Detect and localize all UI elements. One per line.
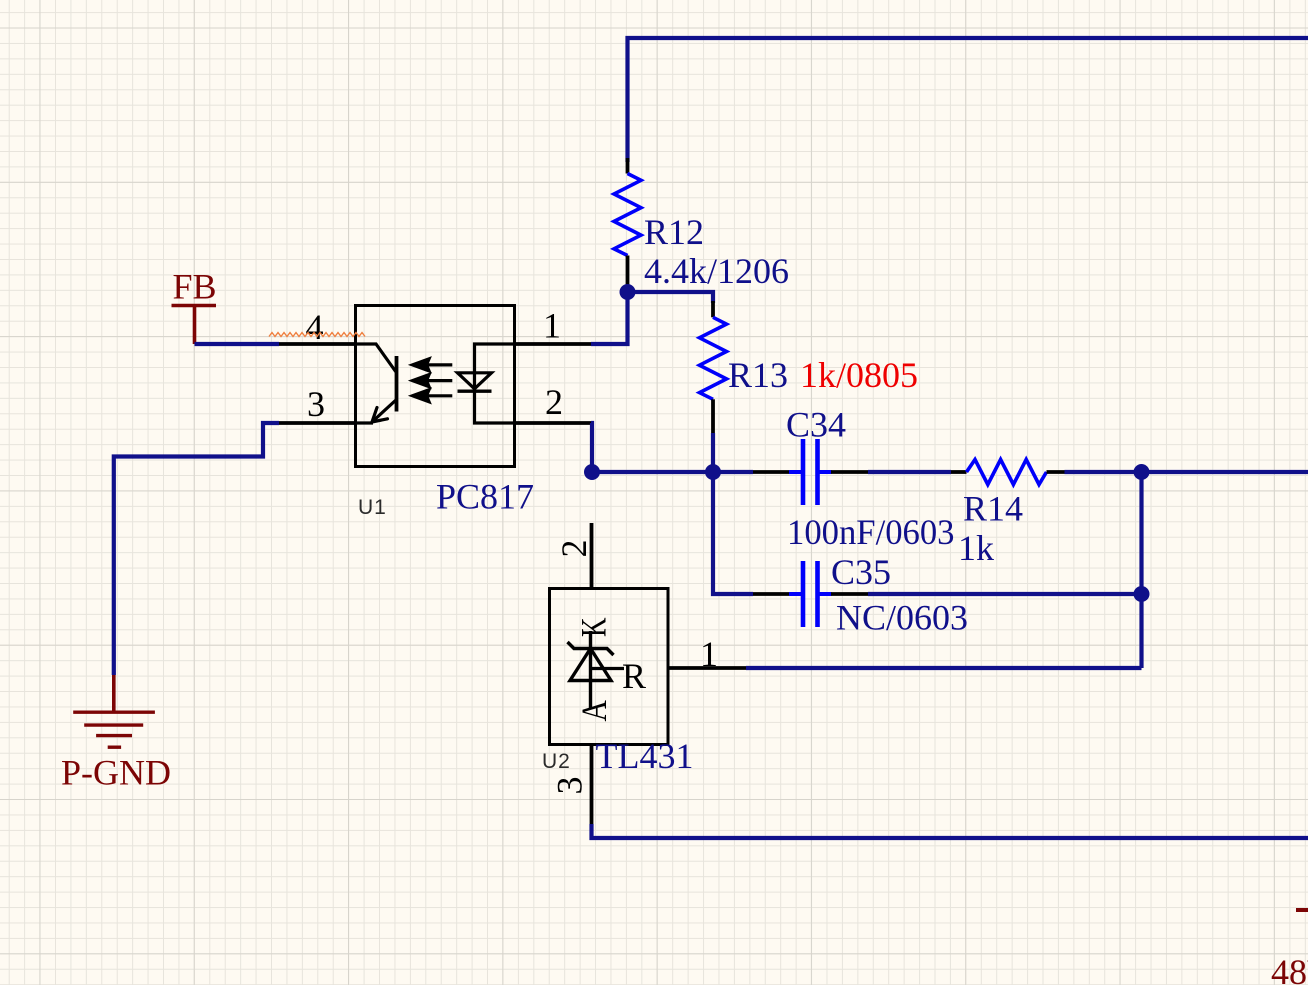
svg-text:1k: 1k	[958, 528, 994, 568]
svg-text:1: 1	[543, 306, 561, 346]
wire right column to TL431 pin1	[746, 666, 1142, 670]
resistor R14	[951, 460, 1065, 569]
svg-text:PC817: PC817	[436, 477, 534, 517]
svg-text:C34: C34	[786, 405, 846, 445]
svg-text:U1: U1	[358, 496, 387, 519]
wire R14 to right junction	[1065, 470, 1308, 474]
wire top rail	[628, 38, 1308, 162]
svg-text:TL431: TL431	[596, 736, 694, 776]
svg-text:C35: C35	[831, 552, 891, 592]
svg-text:R13: R13	[728, 355, 788, 395]
svg-text:48V: 48V	[1271, 952, 1308, 985]
resistor R12	[614, 158, 789, 291]
pin 2	[515, 421, 592, 425]
svg-text:100nF/0603: 100nF/0603	[787, 512, 955, 552]
wire U1.1 to node	[591, 292, 628, 344]
node junction R12/R13/U1.1	[620, 284, 636, 300]
shunt regulator U2 TL431	[542, 523, 746, 824]
ref line to R	[591, 667, 625, 670]
wire junction to R13 top	[628, 292, 714, 303]
svg-text:K: K	[574, 617, 614, 637]
svg-text:1: 1	[700, 634, 718, 674]
wire U1.3 to P-GND	[114, 423, 279, 675]
pin 3	[279, 421, 356, 425]
wire R13 bottom to main node	[711, 433, 715, 472]
svg-text:3: 3	[307, 384, 325, 424]
power bar 48V partial	[1296, 908, 1308, 912]
compile squiggle	[269, 333, 365, 337]
pin 2 top	[590, 523, 594, 589]
pin 1 right	[668, 666, 746, 670]
pin 1	[515, 342, 592, 346]
pin 4	[279, 342, 356, 346]
svg-text:R12: R12	[644, 212, 704, 252]
svg-text:A: A	[575, 700, 614, 722]
node junction C35 right	[1134, 586, 1150, 602]
capacitor C34	[753, 405, 955, 553]
svg-text:4: 4	[306, 307, 324, 347]
svg-text:4.4k/1206: 4.4k/1206	[644, 251, 789, 291]
svg-text:P-GND: P-GND	[61, 753, 171, 793]
wire TL431 pin3 to bottom rail	[592, 824, 1308, 838]
svg-text:2: 2	[545, 382, 563, 422]
wire FB to U1.4	[195, 342, 280, 346]
svg-text:NC/0603: NC/0603	[836, 598, 968, 638]
wire U1.2 down to main node	[591, 423, 592, 472]
wire C34 to R14	[868, 470, 951, 474]
optocoupler U1 PC817	[279, 306, 591, 520]
svg-text:R: R	[622, 656, 646, 696]
capacitor C35	[753, 552, 968, 638]
svg-text:U2: U2	[542, 750, 571, 773]
svg-text:2: 2	[554, 540, 594, 558]
wire C35 branch	[713, 472, 753, 594]
svg-text:FB: FB	[173, 267, 217, 307]
wire right column down	[1139, 472, 1143, 668]
light arrows	[413, 359, 453, 402]
main node wire y472	[592, 470, 753, 474]
node junction R14/right	[1134, 464, 1150, 480]
node junction U1.2/TL431	[584, 464, 600, 480]
resistor R13	[700, 301, 919, 435]
svg-text:1k/0805: 1k/0805	[800, 355, 918, 395]
zener diode inside U2	[589, 631, 592, 708]
pin 3 bottom	[590, 745, 594, 825]
svg-text:R14: R14	[963, 489, 1023, 529]
node junction R13 bottom	[705, 464, 721, 480]
LED inside U1	[475, 344, 515, 423]
wire C35 to right column	[868, 592, 1142, 596]
ground P-GND	[61, 675, 171, 793]
svg-text:3: 3	[550, 777, 590, 795]
power port FB	[172, 267, 217, 345]
transistor inside U1	[356, 344, 397, 372]
